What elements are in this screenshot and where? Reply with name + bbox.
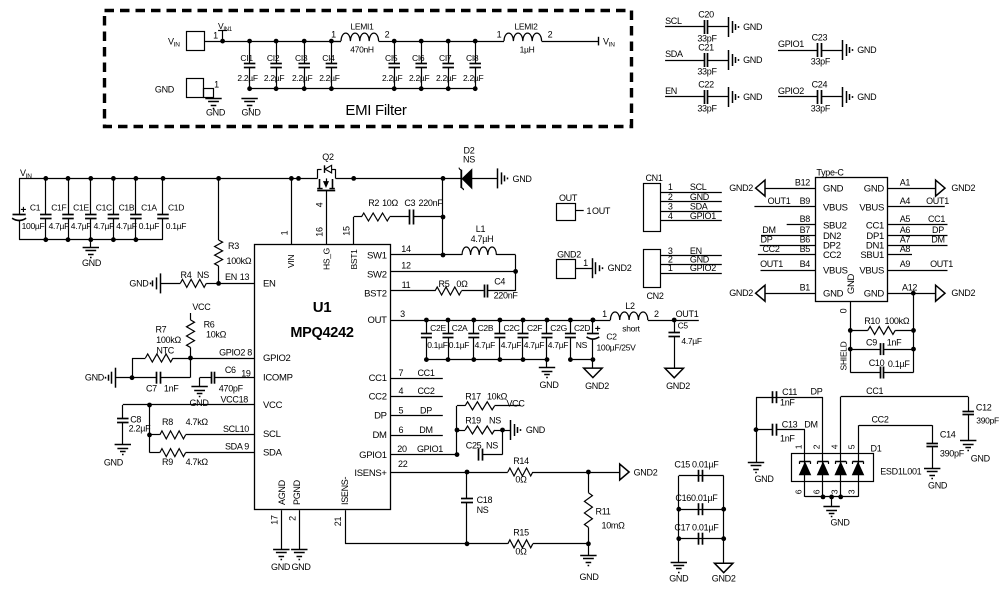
svg-text:B1: B1 [800, 282, 811, 292]
wire U1 GPIO2 pin 8 [191, 358, 255, 360]
Type-C pin A7 DM [887, 245, 947, 247]
resistor R6 10k [190, 313, 192, 320]
inductor LEMI2 1uH [504, 33, 542, 41]
svg-text:GND: GND [155, 85, 175, 95]
inductor L2 short [591, 318, 596, 323]
svg-text:GND: GND [291, 562, 311, 572]
wire U1 ICOMP pin 19 [200, 377, 211, 379]
svg-text:VIN: VIN [286, 255, 296, 268]
ground at C20 [728, 17, 730, 37]
ground AGND [273, 549, 289, 551]
svg-text:3: 3 [847, 489, 857, 494]
svg-text:LEMI1: LEMI1 [350, 22, 374, 32]
svg-text:CN2: CN2 [646, 291, 663, 301]
wire Q2 gate to U1 HS_G pin 16 [326, 191, 328, 245]
svg-text:CC2: CC2 [417, 386, 434, 396]
svg-text:100kΩ: 100kΩ [885, 316, 910, 326]
svg-text:2.2µF: 2.2µF [409, 73, 430, 83]
capacitor C17 0.01uF [679, 538, 724, 540]
svg-text:C23: C23 [812, 33, 828, 43]
capacitor C15 0.01uF [679, 475, 724, 477]
svg-text:VBUS: VBUS [823, 265, 848, 276]
svg-text:DP: DP [420, 406, 432, 416]
svg-text:B7: B7 [800, 225, 811, 235]
svg-text:3: 3 [400, 309, 405, 319]
svg-text:CI4: CI4 [322, 53, 335, 63]
svg-text:GND2: GND2 [585, 381, 609, 391]
CN2 pin 3 EN [660, 255, 721, 257]
svg-text:4: 4 [668, 211, 673, 221]
resistor R17 10k [457, 405, 465, 407]
svg-text:1: 1 [794, 444, 804, 449]
svg-text:10kΩ: 10kΩ [206, 330, 227, 340]
svg-text:C7: C7 [146, 384, 157, 394]
svg-text:R19: R19 [465, 416, 481, 426]
svg-text:220nF: 220nF [494, 291, 519, 301]
node GPIO2 [188, 356, 193, 361]
svg-text:2.2µF: 2.2µF [292, 73, 313, 83]
resistor R9 4.7k [150, 452, 160, 454]
svg-text:C1F: C1F [51, 203, 66, 213]
svg-text:CI2: CI2 [267, 53, 280, 63]
Type-C pin A12 to GND2 [887, 293, 936, 295]
wire SW node vertical [442, 178, 444, 255]
svg-text:CN1: CN1 [645, 173, 662, 183]
ground at D1 [823, 506, 839, 508]
svg-text:SCL: SCL [690, 182, 707, 192]
svg-text:C10: C10 [869, 358, 885, 368]
capacitor CI1 2.2uF [249, 41, 251, 63]
svg-text:B8: B8 [800, 214, 811, 224]
capacitor C22 33pF [665, 96, 704, 98]
svg-text:B4: B4 [800, 259, 811, 269]
svg-text:C22: C22 [698, 80, 714, 90]
resistor R15 0ohm [508, 540, 533, 548]
svg-text:1: 1 [583, 258, 588, 268]
svg-text:4.7µF: 4.7µF [49, 221, 70, 231]
svg-text:100kΩ: 100kΩ [156, 335, 181, 345]
svg-text:4: 4 [315, 202, 325, 207]
capacitor C2A 0.1µF [448, 320, 450, 334]
svg-text:B9: B9 [800, 196, 811, 206]
capacitor C11 1nF [772, 391, 774, 403]
capacitor C16 0.01uF [679, 509, 724, 511]
svg-text:BST1: BST1 [349, 249, 359, 270]
svg-text:BST2: BST2 [364, 288, 387, 299]
diode D2 NS (to GND) [459, 146, 498, 191]
svg-text:DP: DP [932, 225, 944, 235]
capacitor C13 1nF [756, 429, 772, 431]
capacitor CI3 2.2uF [304, 41, 306, 63]
svg-text:GND: GND [823, 289, 844, 300]
resistor R4 NS [160, 283, 180, 285]
svg-text:GND2: GND2 [634, 468, 658, 478]
svg-text:7: 7 [398, 368, 403, 378]
svg-text:OUT: OUT [559, 193, 578, 203]
svg-text:GND2: GND2 [666, 381, 690, 391]
svg-text:GND: GND [85, 373, 105, 383]
connector VIN (EMI input) [187, 32, 205, 51]
svg-text:GND: GND [690, 192, 710, 202]
svg-text:0.01µF: 0.01µF [692, 459, 719, 469]
svg-text:16: 16 [315, 227, 325, 237]
wire U1 VCC pin 18 [123, 404, 255, 406]
svg-text:C2A: C2A [452, 323, 468, 333]
svg-text:EN: EN [263, 279, 276, 290]
svg-text:2: 2 [385, 30, 390, 40]
capacitor C1B 4.7µF [113, 178, 115, 214]
svg-text:GPIO1: GPIO1 [417, 444, 443, 454]
svg-text:0: 0 [839, 308, 849, 313]
svg-text:4.7µF: 4.7µF [116, 221, 137, 231]
svg-text:VCC: VCC [506, 399, 525, 409]
capacitor C2 100uF/25V polarized [592, 320, 594, 334]
wire U1 ISENS- pin 21 [345, 510, 347, 544]
wire output cap bank bottom rail [426, 359, 547, 361]
wire EMI bottom rail [250, 88, 475, 90]
svg-text:GPIO2 8: GPIO2 8 [219, 347, 252, 357]
svg-text:1: 1 [587, 206, 592, 216]
svg-text:Type-C: Type-C [816, 168, 844, 178]
wire BST2 pin 11 [391, 290, 436, 292]
ground at C22 [728, 87, 730, 107]
svg-text:+: + [21, 205, 27, 216]
svg-text:0.1µF: 0.1µF [427, 340, 448, 350]
svg-text:ISENS+: ISENS+ [354, 468, 387, 479]
svg-text:DP: DP [761, 235, 773, 245]
capacitor C14 390pF [932, 425, 934, 443]
svg-text:1nF: 1nF [780, 398, 795, 408]
svg-text:R17: R17 [465, 392, 481, 402]
svg-text:C15: C15 [674, 459, 690, 469]
capacitor CI2 2.2uF [276, 41, 278, 63]
svg-text:HS_G: HS_G [321, 248, 331, 270]
svg-text:VCC: VCC [192, 302, 211, 312]
svg-text:EMI Filter: EMI Filter [345, 102, 406, 119]
capacitor C1C 4.7µF [90, 178, 92, 214]
svg-text:C25: C25 [466, 440, 482, 450]
svg-text:GND: GND [864, 184, 885, 195]
connector CN2 [644, 250, 661, 288]
wire U1 VIN pin 1 [291, 178, 293, 244]
capacitor C25 NS [478, 449, 480, 461]
svg-text:NS: NS [477, 505, 489, 515]
capacitor C3 220nF [390, 216, 410, 218]
svg-text:C1B: C1B [119, 203, 135, 213]
capacitor C2D NS [570, 320, 572, 334]
svg-text:GND: GND [743, 92, 763, 102]
capacitor C2G 4.7µF [546, 320, 548, 334]
svg-text:R4: R4 [181, 270, 192, 280]
Type-C pin A6 DP [887, 235, 947, 237]
svg-text:GND: GND [104, 457, 124, 467]
svg-text:0Ω: 0Ω [515, 547, 527, 557]
svg-text:GND: GND [129, 279, 149, 289]
svg-text:CC2: CC2 [823, 250, 841, 261]
ground at C17 left [671, 562, 687, 564]
wire U1 CC1 pin 7 [391, 378, 443, 380]
svg-text:11: 11 [402, 280, 411, 290]
svg-text:5: 5 [847, 444, 857, 449]
svg-text:B6: B6 [800, 235, 811, 245]
svg-text:470pF: 470pF [219, 384, 244, 394]
capacitor C8 2.2uF [122, 405, 124, 419]
svg-text:1: 1 [668, 263, 673, 273]
capacitor CI6 2.2uF [421, 41, 423, 63]
svg-text:6: 6 [794, 489, 804, 494]
svg-text:GND: GND [846, 273, 857, 294]
svg-text:R8: R8 [162, 417, 173, 427]
svg-text:1nF: 1nF [164, 384, 179, 394]
svg-text:2.2µF: 2.2µF [463, 73, 484, 83]
svg-text:20: 20 [397, 444, 407, 454]
resistor R5 0ohm [435, 287, 461, 295]
wire VIN rail to Q2 drain [289, 176, 294, 181]
CN1 pin 1 SCL [660, 192, 721, 194]
svg-text:DP: DP [811, 387, 823, 397]
svg-text:R5: R5 [439, 279, 450, 289]
Type-C pin B5 CC2 [758, 254, 816, 256]
capacitor CI8 2.2uF [475, 41, 477, 63]
svg-text:VBUS: VBUS [859, 265, 884, 276]
svg-text:NS: NS [486, 440, 498, 450]
resistor R14 0ohm [508, 468, 533, 476]
svg-text:390pF: 390pF [940, 449, 965, 459]
node EN / wire to U1 pin 13 [216, 281, 221, 286]
wire U1 DM pin 6 [391, 435, 443, 437]
svg-text:R2: R2 [368, 198, 379, 208]
svg-text:SDA: SDA [665, 49, 683, 59]
ground GND2 at R14 [620, 464, 629, 480]
svg-text:L2: L2 [625, 301, 635, 311]
svg-text:DM: DM [931, 235, 944, 245]
wire U1 ISENS+ pin 22 [391, 472, 508, 474]
svg-text:1: 1 [280, 230, 290, 235]
svg-text:2: 2 [668, 192, 673, 202]
svg-text:CC1: CC1 [928, 214, 945, 224]
svg-text:DM: DM [419, 425, 432, 435]
svg-text:GND2: GND2 [557, 250, 581, 260]
svg-text:GND2: GND2 [729, 288, 753, 298]
capacitor C9 1nF [850, 349, 880, 351]
svg-text:+: + [595, 324, 601, 335]
svg-text:1: 1 [331, 30, 336, 40]
svg-text:3: 3 [829, 489, 839, 494]
ground at GND connector [205, 98, 221, 100]
svg-text:2: 2 [654, 309, 659, 319]
capacitor C12 390pF [968, 397, 970, 411]
svg-text:33pF: 33pF [697, 104, 717, 114]
svg-text:R9: R9 [162, 457, 173, 467]
svg-text:C2: C2 [606, 332, 617, 342]
capacitor C1E 4.7µF [68, 178, 70, 214]
svg-text:NS: NS [463, 155, 475, 165]
CN1 pin 3 SDA [660, 211, 721, 213]
capacitor C18 NS [466, 472, 468, 499]
resistor R19 NS [457, 430, 465, 432]
svg-text:4.7kΩ: 4.7kΩ [186, 417, 209, 427]
svg-text:DP: DP [374, 411, 387, 422]
svg-text:OUT1: OUT1 [926, 196, 949, 206]
svg-text:GND: GND [206, 108, 226, 118]
resistor R8 4.7k [150, 434, 160, 436]
svg-text:OUT1: OUT1 [930, 259, 953, 269]
svg-text:14: 14 [401, 244, 411, 254]
svg-text:4.7µF: 4.7µF [94, 221, 115, 231]
svg-text:10mΩ: 10mΩ [602, 521, 626, 531]
svg-text:0.1µF: 0.1µF [888, 359, 910, 369]
Type-C pin B7 DM [761, 235, 815, 237]
svg-text:SW2: SW2 [367, 269, 387, 280]
svg-text:10Ω: 10Ω [382, 198, 398, 208]
wire C15-C17 left rail [678, 476, 680, 562]
svg-text:2.2µF: 2.2µF [129, 423, 151, 433]
resistor R11 10mohm [588, 472, 590, 493]
svg-text:SHIELD: SHIELD [839, 341, 849, 370]
svg-text:C2E: C2E [430, 323, 446, 333]
svg-text:GPIO1: GPIO1 [359, 450, 387, 461]
svg-text:C1C: C1C [96, 203, 112, 213]
svg-text:C21: C21 [698, 43, 714, 53]
svg-text:C11: C11 [782, 387, 797, 397]
capacitor C7 1nF [132, 377, 157, 379]
svg-text:GPIO1: GPIO1 [778, 39, 804, 49]
svg-text:1nF: 1nF [780, 434, 795, 444]
svg-text:VCC18: VCC18 [220, 395, 248, 405]
svg-text:A9: A9 [900, 259, 911, 269]
ground at C12 [960, 440, 976, 442]
svg-text:C1: C1 [30, 203, 41, 213]
wire BST1 pin 15 [353, 217, 355, 245]
svg-text:GND: GND [241, 108, 261, 118]
svg-text:SCL: SCL [665, 16, 682, 26]
svg-text:0.01µF: 0.01µF [691, 493, 718, 503]
svg-text:1: 1 [602, 309, 607, 319]
svg-text:GND: GND [82, 258, 102, 268]
connector GND2 [557, 260, 576, 279]
port VIN (EMI output) [598, 37, 600, 46]
capacitor C5 4.7uF [674, 320, 676, 333]
svg-text:C14: C14 [940, 430, 956, 440]
svg-text:ICOMP: ICOMP [263, 373, 293, 384]
CN1 pin 2 GND [660, 201, 721, 203]
svg-text:AGND: AGND [277, 479, 287, 505]
svg-text:19: 19 [241, 369, 251, 379]
ground at C13 [748, 462, 764, 464]
svg-text:A8: A8 [900, 244, 911, 254]
Type-C pin A1 to GND2 [887, 188, 936, 190]
svg-text:0.1µF: 0.1µF [449, 340, 470, 350]
svg-text:0.1µF: 0.1µF [139, 221, 160, 231]
wire CC1 net [841, 396, 969, 398]
svg-text:R14: R14 [513, 456, 529, 466]
inductor LEMI1 470nH [331, 41, 341, 43]
wire SW1 pin 14 [391, 254, 444, 256]
resistor R10 100k [850, 330, 868, 332]
connector OUT [557, 204, 576, 221]
svg-text:5: 5 [398, 406, 403, 416]
svg-text:C1E: C1E [73, 203, 89, 213]
Type-C pin B8 stub [787, 224, 816, 226]
svg-text:C18: C18 [477, 495, 493, 505]
Type-C pin A5 CC1 [887, 224, 947, 226]
ground at R4 [160, 273, 162, 293]
svg-text:short: short [622, 324, 640, 334]
svg-text:DM: DM [762, 225, 775, 235]
svg-text:22: 22 [398, 459, 408, 469]
svg-text:GND: GND [928, 480, 948, 490]
svg-text:C1D: C1D [168, 203, 184, 213]
capacitor C6 470pF [211, 372, 213, 384]
capacitor C23 33pF [778, 50, 818, 52]
svg-text:CI8: CI8 [466, 53, 479, 63]
svg-text:17: 17 [270, 515, 280, 525]
op-amp U1 MPQ4242 (IC body) [255, 245, 391, 510]
svg-text:CC2: CC2 [871, 415, 888, 425]
svg-text:GND: GND [857, 45, 877, 55]
svg-text:A5: A5 [900, 214, 911, 224]
svg-text:0Ω: 0Ω [456, 279, 468, 289]
wire DP net [756, 397, 823, 399]
svg-text:33pF: 33pF [697, 67, 717, 77]
Type-C pin B6 DP [760, 245, 816, 247]
svg-text:220nF: 220nF [418, 198, 443, 208]
net label VIN1 [222, 31, 224, 41]
svg-text:GND: GND [271, 562, 291, 572]
Type-C pin B4 OUT1 [761, 270, 816, 272]
Type-C shield pin 0 [850, 302, 852, 373]
capacitor C2E 0.1µF [426, 320, 428, 334]
svg-text:GND: GND [526, 425, 546, 435]
svg-text:GPIO2: GPIO2 [778, 86, 804, 96]
ground at C8 [115, 444, 131, 446]
capacitor C2F 4.7µF [522, 320, 524, 334]
svg-text:PGND: PGND [292, 479, 302, 505]
ground at C23 [842, 40, 844, 60]
svg-text:SBU2: SBU2 [823, 220, 847, 231]
svg-text:B5: B5 [800, 244, 811, 254]
svg-text:GND: GND [864, 289, 885, 300]
svg-text:GND: GND [830, 518, 850, 528]
svg-text:CC2: CC2 [762, 244, 779, 254]
svg-text:ESD1L001: ESD1L001 [880, 467, 921, 477]
ground GND2 at C2 [592, 360, 594, 369]
wire VCC to R8/R9 [149, 405, 151, 453]
wire U1 PGND pin 2 [299, 510, 301, 549]
svg-text:C20: C20 [698, 10, 714, 20]
svg-text:LEMI2: LEMI2 [514, 22, 538, 32]
svg-text:DM: DM [373, 430, 388, 441]
svg-text:OUT1: OUT1 [760, 259, 783, 269]
svg-text:NS: NS [489, 416, 501, 426]
ground C1 bank [90, 240, 92, 248]
svg-text:CI5: CI5 [385, 53, 398, 63]
svg-text:NTC: NTC [156, 345, 174, 355]
wire ISENS- rail [345, 543, 508, 545]
svg-text:1: 1 [668, 182, 673, 192]
svg-text:4.7µH: 4.7µH [471, 234, 494, 244]
svg-text:GND2: GND2 [951, 183, 975, 193]
D1 pin 4 (CC1) [840, 397, 842, 453]
svg-text:4.7µF: 4.7µF [524, 340, 545, 350]
capacitor C4 220nF [461, 290, 483, 292]
inductor L1 4.7uH [443, 254, 462, 256]
ground at C24 [842, 87, 844, 107]
wire C11/C13 left rail [756, 397, 758, 462]
svg-text:GND: GND [743, 55, 763, 65]
svg-text:OUT1: OUT1 [676, 309, 699, 319]
wire OUT pin 3 [391, 320, 611, 322]
